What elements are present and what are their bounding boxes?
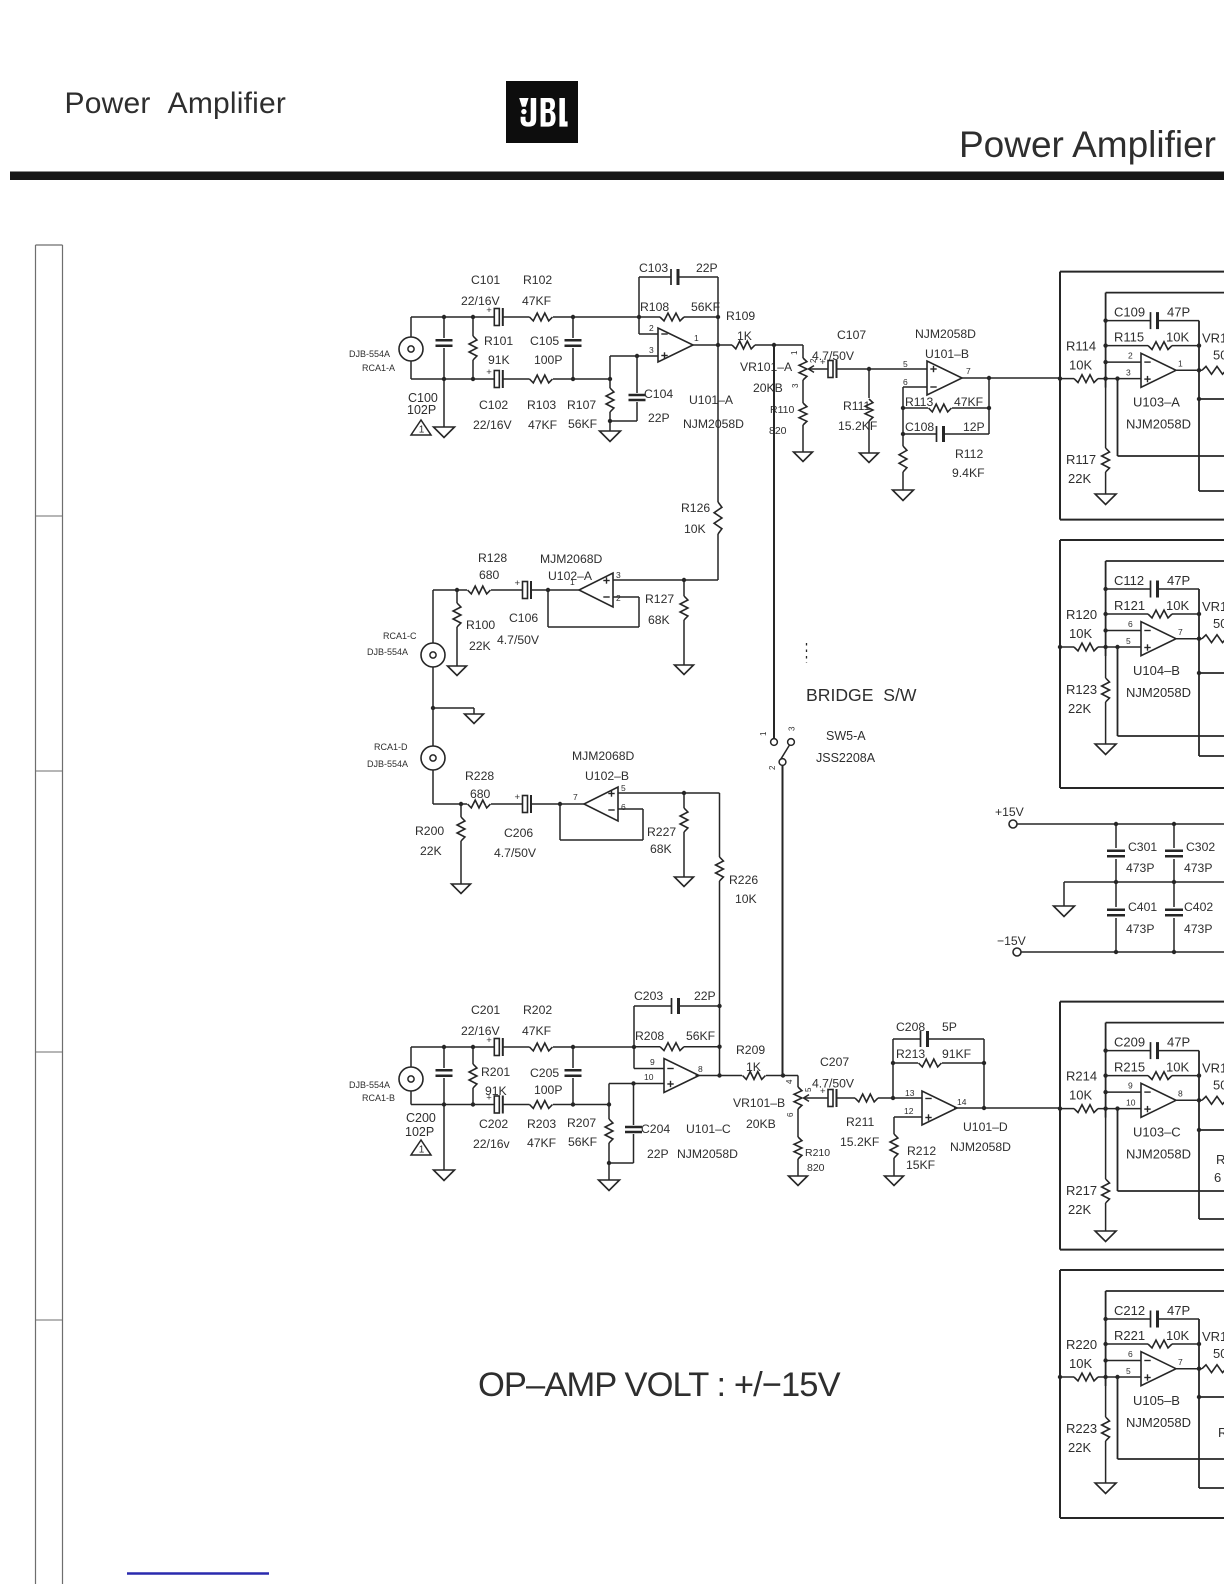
label R117	[1066, 452, 1096, 486]
op-amp U101-C	[664, 1059, 699, 1093]
svg-text:6: 6	[1128, 1349, 1133, 1359]
svg-text:4.7/50V: 4.7/50V	[497, 633, 540, 647]
wire B1 return	[1118, 379, 1224, 456]
svg-text:C108: C108	[905, 420, 934, 434]
wire B2 output	[1175, 637, 1202, 641]
svg-text:C106: C106	[509, 611, 538, 625]
wire B4 right vert	[1197, 1319, 1224, 1488]
terminal -15V	[997, 934, 1027, 956]
svg-text:R221: R221	[1114, 1328, 1145, 1343]
pin label VR101-A 2	[809, 358, 818, 363]
label extra B3	[1214, 1152, 1224, 1185]
svg-text:VR101–A: VR101–A	[740, 360, 793, 374]
wire U102-A feedback	[548, 590, 639, 627]
svg-text:9: 9	[650, 1057, 655, 1067]
ground B3	[1095, 1231, 1116, 1242]
op-amp U101-D	[922, 1091, 957, 1125]
svg-text:C202: C202	[479, 1117, 508, 1131]
svg-text:2: 2	[616, 593, 621, 603]
wire B1 inner top	[1106, 292, 1224, 294]
label R120	[1066, 607, 1097, 641]
label C205	[530, 1066, 562, 1097]
ground under C200	[434, 1170, 455, 1181]
svg-text:56KF: 56KF	[686, 1029, 715, 1043]
resistor R203	[530, 1101, 553, 1109]
svg-text:C102: C102	[479, 398, 508, 412]
label U102-A	[540, 552, 603, 583]
svg-text:C101: C101	[471, 273, 500, 287]
pin label 8	[1178, 1089, 1183, 1099]
wire B4 output	[1175, 1367, 1202, 1371]
svg-text:50: 50	[1213, 1078, 1224, 1093]
svg-text:1: 1	[694, 333, 699, 343]
svg-text:47KF: 47KF	[527, 1136, 556, 1150]
svg-text:9: 9	[1128, 1081, 1133, 1091]
svg-text:12P: 12P	[963, 420, 985, 434]
pin label VR101-B 6	[786, 1112, 795, 1117]
potentiometer VR101-A	[799, 345, 819, 380]
capacitor C201	[486, 1035, 503, 1056]
svg-text:10K: 10K	[1166, 598, 1189, 613]
svg-text:R127: R127	[645, 592, 674, 606]
svg-text:C302: C302	[1186, 840, 1215, 854]
wire B2 inner top	[1106, 560, 1224, 562]
wire B2 inverting input	[1106, 630, 1141, 632]
svg-text:22/16V: 22/16V	[473, 418, 512, 432]
svg-text:C203: C203	[634, 989, 663, 1003]
svg-text:R103: R103	[527, 398, 556, 412]
label R202	[522, 1003, 552, 1038]
label C102	[473, 398, 512, 432]
svg-text:R100: R100	[466, 618, 495, 632]
svg-text:47KF: 47KF	[954, 395, 983, 409]
resistor R108	[639, 313, 720, 321]
svg-text:10: 10	[1126, 1098, 1136, 1108]
svg-text:12: 12	[904, 1106, 914, 1116]
svg-text:R115: R115	[1114, 330, 1144, 345]
svg-text:22K: 22K	[420, 844, 442, 858]
header title left	[65, 87, 287, 120]
capacitor C401	[1107, 882, 1125, 952]
wire B2 right vert	[1197, 589, 1224, 756]
terminal +15V	[995, 805, 1025, 828]
svg-text:5P: 5P	[942, 1020, 957, 1034]
svg-text:C103: C103	[639, 261, 668, 275]
wire B1 inverting input	[1106, 361, 1141, 363]
pin 12 label	[904, 1106, 914, 1116]
svg-text:U101–C: U101–C	[686, 1122, 731, 1136]
capacitor C103	[671, 269, 678, 285]
label R200	[415, 824, 444, 858]
svg-text:5: 5	[1126, 1366, 1131, 1376]
pin label 3	[1126, 368, 1131, 378]
label R127	[645, 592, 674, 627]
svg-text:NJM2058D: NJM2058D	[950, 1140, 1011, 1154]
label R111	[838, 399, 877, 433]
svg-text:820: 820	[769, 425, 787, 437]
capacitor C203	[672, 998, 679, 1014]
svg-text:DJB-554A: DJB-554A	[349, 1080, 390, 1090]
label R103	[527, 398, 557, 432]
ground B2	[1095, 744, 1116, 755]
note marker 1 (channel A)	[411, 420, 431, 436]
svg-text:47KF: 47KF	[522, 294, 551, 308]
svg-text:C204: C204	[641, 1122, 670, 1136]
label C209	[1114, 1035, 1190, 1050]
label U101-A	[683, 393, 744, 431]
op-amp U101-B	[927, 361, 962, 395]
svg-text:C207: C207	[820, 1055, 849, 1069]
label R114	[1066, 339, 1096, 373]
label R217	[1066, 1183, 1097, 1217]
ground under R112	[893, 490, 914, 501]
svg-text:R123: R123	[1066, 682, 1097, 697]
label R214	[1066, 1069, 1097, 1103]
svg-text:10K: 10K	[1166, 330, 1189, 345]
wire B1 input row	[1058, 376, 1141, 380]
wire U101-B output	[961, 377, 1060, 379]
svg-text:3: 3	[791, 383, 800, 388]
svg-text:JSS2208A: JSS2208A	[816, 751, 876, 765]
svg-text:+15V: +15V	[995, 805, 1025, 819]
label RCA1-A refs	[349, 349, 395, 373]
svg-text:R126: R126	[681, 501, 710, 515]
capacitor C208	[893, 1031, 984, 1047]
wire B4 inverting input	[1106, 1360, 1141, 1362]
label R207	[567, 1116, 597, 1149]
svg-text:14: 14	[957, 1097, 967, 1107]
label R213	[896, 1047, 971, 1061]
wire B1 output	[1175, 368, 1202, 372]
potentiometer VR (cut) B3	[1202, 1096, 1224, 1104]
label RCA1-C refs	[367, 631, 417, 657]
pin 8 label	[698, 1064, 703, 1074]
wire feedback left vert D	[891, 1039, 895, 1098]
label R109	[726, 309, 755, 343]
svg-text:C200: C200	[406, 1111, 436, 1125]
capacitor C108	[901, 426, 989, 442]
label C204	[641, 1122, 670, 1161]
svg-text:R107: R107	[567, 398, 596, 412]
potentiometer VR (cut) B2	[1202, 635, 1224, 643]
svg-text:9.4KF: 9.4KF	[952, 466, 985, 480]
svg-text:C112: C112	[1114, 573, 1144, 588]
capacitor C102	[486, 367, 503, 388]
svg-text:R114: R114	[1066, 339, 1096, 354]
svg-text:R215: R215	[1114, 1060, 1145, 1075]
left margin column	[36, 245, 63, 1584]
node U102-B pin5 junction	[682, 791, 686, 795]
ground under R210	[789, 1176, 808, 1186]
svg-text:R228: R228	[465, 769, 494, 783]
resistor R101	[469, 317, 477, 379]
label C105	[530, 334, 562, 367]
svg-text:820: 820	[807, 1162, 825, 1174]
ground B1	[1095, 494, 1116, 505]
svg-text:C201: C201	[471, 1003, 500, 1017]
svg-text:C107: C107	[837, 328, 866, 342]
pin label 5	[1126, 1366, 1131, 1376]
pin 10 label	[644, 1072, 654, 1082]
svg-text:13: 13	[905, 1088, 915, 1098]
capacitor C212	[1106, 1311, 1199, 1328]
pin 7 label	[966, 366, 971, 376]
resistor R202	[530, 1043, 553, 1051]
box B4 outline	[1060, 1270, 1224, 1518]
resistor R223	[1102, 1377, 1110, 1483]
resistor R211	[837, 1094, 923, 1102]
label VR101-A	[740, 360, 793, 395]
label R102	[522, 273, 552, 308]
wire pin9 B	[634, 1006, 664, 1069]
svg-text:10: 10	[644, 1072, 654, 1082]
resistor R115	[1106, 342, 1202, 350]
resistor R127	[680, 580, 688, 665]
ground under R212	[885, 1176, 904, 1186]
resistor R123	[1102, 647, 1110, 744]
svg-text:22K: 22K	[469, 639, 491, 653]
pin label VR101-B 5	[804, 1087, 813, 1092]
label R112	[952, 447, 985, 480]
svg-text:NJM2058D: NJM2058D	[1126, 1147, 1191, 1162]
svg-text:20KB: 20KB	[753, 381, 783, 395]
svg-text:6: 6	[621, 802, 626, 812]
svg-text:10K: 10K	[735, 892, 757, 906]
resistor R209	[743, 1072, 766, 1080]
svg-text:R: R	[1216, 1152, 1224, 1167]
label C103	[639, 261, 718, 275]
svg-text:MJM2068D: MJM2068D	[572, 749, 635, 763]
wire pin3 link A	[610, 356, 658, 379]
svg-text:473P: 473P	[1126, 861, 1154, 875]
node R113 left	[901, 406, 905, 410]
wire B3 inner top	[1106, 1022, 1224, 1024]
node C107 out	[867, 367, 871, 371]
svg-text:100P: 100P	[534, 353, 562, 367]
ground under R100	[448, 666, 467, 676]
resistor R110	[799, 380, 807, 452]
svg-text:R120: R120	[1066, 607, 1097, 622]
svg-text:56KF: 56KF	[691, 300, 720, 314]
label C107	[812, 328, 866, 363]
capacitor C101	[486, 305, 503, 326]
pin label 2	[1128, 351, 1133, 361]
pin label SW 1	[759, 731, 768, 736]
svg-text:680: 680	[479, 568, 500, 582]
label R208	[635, 1029, 715, 1043]
label R113	[905, 395, 983, 409]
capacitor C206	[515, 792, 532, 813]
label C207	[812, 1055, 855, 1091]
capacitor C204	[609, 1081, 642, 1163]
svg-text:15KF: 15KF	[906, 1158, 935, 1172]
svg-text:R209: R209	[736, 1043, 765, 1057]
svg-text:4.7/50V: 4.7/50V	[494, 846, 537, 860]
wire feedback right vert B	[987, 376, 991, 434]
pin label 10	[1126, 1098, 1136, 1108]
svg-text:10K: 10K	[1166, 1060, 1189, 1075]
label R228	[465, 769, 494, 801]
wire B1 bus	[1103, 293, 1107, 388]
svg-text:DJB-554A: DJB-554A	[367, 647, 408, 657]
label extra B4	[1218, 1425, 1224, 1440]
svg-text:R214: R214	[1066, 1069, 1097, 1084]
label VR (cut) B3	[1202, 1061, 1224, 1093]
potentiometer VR (cut) B4	[1202, 1365, 1224, 1373]
svg-text:22K: 22K	[1068, 1202, 1091, 1217]
svg-text:7: 7	[1178, 627, 1183, 637]
connector RCA1-A	[399, 317, 423, 379]
wire B3 return	[1118, 1109, 1224, 1191]
svg-text:U101–A: U101–A	[689, 393, 734, 407]
label BRIDGE S/W	[806, 685, 917, 705]
svg-text:U101–D: U101–D	[963, 1120, 1008, 1134]
wire pin2 A	[639, 333, 658, 335]
pin label 6	[1128, 1349, 1133, 1359]
resistor R214	[1074, 1105, 1098, 1113]
svg-text:10K: 10K	[1069, 358, 1092, 373]
svg-text:R109: R109	[726, 309, 755, 323]
svg-text:OP–AMP VOLT : +/−15V: OP–AMP VOLT : +/−15V	[478, 1366, 841, 1404]
label C203	[634, 989, 716, 1003]
box B3 outline	[1060, 1002, 1224, 1250]
label R100	[466, 618, 495, 653]
capacitor C402	[1165, 882, 1183, 952]
svg-text:R128: R128	[478, 551, 507, 565]
wire RCA shield node	[431, 667, 435, 746]
label C200	[405, 1111, 436, 1139]
capacitor C100	[436, 317, 453, 427]
op-amp U102-A	[579, 573, 613, 607]
svg-text:C109: C109	[1114, 305, 1145, 320]
label RCA1-B refs	[349, 1080, 395, 1103]
svg-text:22P: 22P	[647, 1147, 669, 1161]
label R123	[1066, 682, 1097, 716]
svg-text:C212: C212	[1114, 1303, 1145, 1318]
svg-text:R213: R213	[896, 1047, 925, 1061]
svg-text:3: 3	[616, 570, 621, 580]
resistor R220	[1074, 1373, 1098, 1381]
svg-text:R108: R108	[640, 300, 669, 314]
svg-text:VR1: VR1	[1202, 599, 1224, 614]
resistor R120	[1074, 643, 1098, 651]
svg-text:2: 2	[768, 765, 777, 770]
svg-text:C209: C209	[1114, 1035, 1145, 1050]
svg-text:22K: 22K	[1068, 471, 1091, 486]
ground mid rail	[1054, 882, 1075, 917]
wire feedback left vert A	[639, 277, 718, 345]
label R101	[484, 334, 513, 367]
node top rail B junctions	[442, 1045, 636, 1049]
capacitor C207	[814, 1086, 837, 1107]
svg-text:20KB: 20KB	[746, 1117, 776, 1131]
svg-text:MJM2068D: MJM2068D	[540, 552, 603, 566]
label R221	[1114, 1328, 1189, 1343]
label C104	[644, 387, 673, 425]
label R215	[1114, 1060, 1189, 1075]
svg-text:NJM2058D: NJM2058D	[677, 1147, 738, 1161]
svg-text:U105–B: U105–B	[1133, 1393, 1180, 1408]
svg-text:+: +	[515, 578, 521, 589]
label R212	[906, 1144, 936, 1172]
pin label 5	[1126, 636, 1131, 646]
svg-text:22/16V: 22/16V	[461, 294, 500, 308]
label VR (cut) B1	[1202, 331, 1224, 363]
svg-text:−15V: −15V	[997, 934, 1027, 948]
resistor R113	[903, 404, 989, 412]
resistor R109	[732, 341, 755, 349]
svg-text:22P: 22P	[694, 989, 716, 1003]
resistor R112	[899, 434, 907, 490]
svg-text:50: 50	[1213, 1346, 1224, 1361]
wire C206 to amp	[531, 802, 584, 806]
label JSS2208A	[816, 751, 876, 765]
svg-text:R211: R211	[846, 1115, 874, 1129]
label U101-D	[950, 1120, 1011, 1154]
node top rail junctions	[442, 315, 641, 319]
label R110	[769, 404, 794, 437]
label R121	[1114, 598, 1189, 613]
svg-text:C105: C105	[530, 334, 559, 348]
logo JBL	[506, 81, 578, 143]
svg-text:47P: 47P	[1167, 573, 1190, 588]
svg-text:R121: R121	[1114, 598, 1145, 613]
wire bridge to B	[782, 766, 784, 1076]
svg-text:R111: R111	[843, 399, 871, 413]
note OP-AMP VOLT	[478, 1366, 841, 1404]
svg-text:91KF: 91KF	[942, 1047, 971, 1061]
label R209	[736, 1043, 765, 1074]
label C208	[896, 1020, 957, 1034]
svg-text:C401: C401	[1128, 900, 1157, 914]
resistor R228	[468, 800, 523, 808]
svg-text:R212: R212	[907, 1144, 936, 1158]
ground RCA shield	[433, 708, 484, 724]
capacitor C209	[1106, 1042, 1199, 1059]
wire +15V rail	[1017, 822, 1224, 826]
svg-text:R201: R201	[481, 1065, 510, 1079]
svg-text:680: 680	[470, 787, 491, 801]
svg-text:8: 8	[1178, 1089, 1183, 1099]
box B1 outline	[1060, 272, 1224, 520]
svg-text:68K: 68K	[650, 842, 672, 856]
wire pin10 link B	[609, 1084, 664, 1105]
svg-text:1K: 1K	[746, 1060, 761, 1074]
svg-text:22/16V: 22/16V	[461, 1024, 500, 1038]
svg-text:10K: 10K	[1166, 1328, 1189, 1343]
svg-text:R210: R210	[805, 1147, 830, 1159]
svg-text:102P: 102P	[405, 1125, 434, 1139]
label R201	[481, 1065, 510, 1098]
svg-text:47P: 47P	[1167, 305, 1190, 320]
svg-text:NJM2058D: NJM2058D	[1126, 417, 1191, 432]
wire R126 drop	[684, 345, 722, 580]
label C202	[473, 1117, 510, 1151]
svg-text:3: 3	[788, 726, 797, 731]
pin label VR101-A 3	[791, 383, 800, 388]
svg-text:2: 2	[1128, 351, 1133, 361]
capacitor C302	[1165, 824, 1183, 882]
wire U102-A out	[531, 588, 580, 592]
svg-text:NJM2058D: NJM2058D	[683, 417, 744, 431]
pin label 6	[1128, 619, 1133, 629]
pin 3 label U102-A	[616, 570, 621, 580]
pin label 7	[1178, 627, 1183, 637]
ground under R227	[675, 877, 694, 887]
node U102-A pin3	[682, 578, 686, 582]
svg-text:RCA1-B: RCA1-B	[362, 1093, 395, 1103]
svg-text:VR1: VR1	[1202, 331, 1224, 346]
